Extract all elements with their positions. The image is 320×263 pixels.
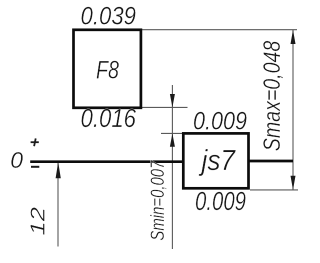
svg-text:0.009: 0.009 [195, 188, 246, 216]
svg-text:12: 12 [27, 207, 49, 236]
dimension line 12 (vertical) [57, 162, 59, 247]
dimension line Smax (vertical) [292, 30, 294, 190]
arrow Smin down (tip at F8 bottom extension) [170, 94, 175, 107]
extension line F8 bottom (to Smin dimension) [141, 106, 188, 108]
svg-text:js7: js7 [198, 145, 237, 177]
svg-text:0.016: 0.016 [81, 103, 137, 133]
extension line F8 top (to Smax dimension) [141, 29, 297, 31]
svg-text:Smax=0,048: Smax=0,048 [259, 40, 286, 151]
minus sign below zero line [31, 166, 39, 168]
dimension line Smin (vertical) [171, 85, 173, 249]
svg-text:0.039: 0.039 [81, 3, 137, 31]
svg-text:0: 0 [10, 147, 23, 173]
plus sign above zero line [31, 141, 39, 143]
arrow Smax down (tip at js7 bottom extension) [291, 176, 296, 190]
tolerance box F8 (hole) [74, 30, 141, 108]
svg-text:0.009: 0.009 [193, 108, 247, 136]
arrow Smin up (tip at js7 top extension) [170, 133, 175, 146]
tolerance box js7 (shaft) [183, 133, 248, 188]
zero line right segment [249, 160, 294, 163]
extension line js7 top (to Smin dimension) [161, 132, 183, 134]
svg-text:F8: F8 [96, 57, 119, 85]
svg-text:Smin=0,007: Smin=0,007 [147, 160, 169, 241]
arrow 12 up (tip at zero line) [56, 162, 61, 178]
zero line left segment [30, 160, 183, 163]
extension line js7 bottom (to Smax dimension) [250, 189, 298, 191]
arrow Smax up (tip at F8 top extension) [291, 30, 296, 44]
